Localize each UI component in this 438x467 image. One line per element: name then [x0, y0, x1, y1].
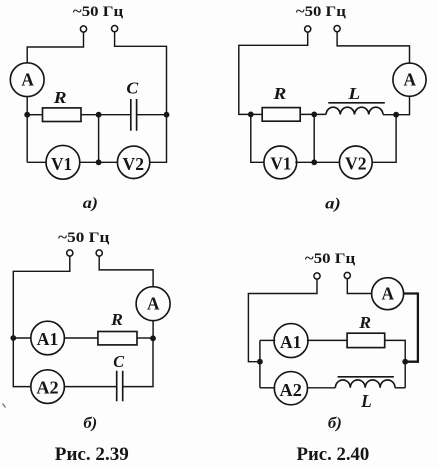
- svg-text:V1: V1: [51, 154, 72, 174]
- wire middle riser (2.39a): [98, 115, 100, 163]
- wire left terminal to ammeter A (2.39a): [27, 32, 83, 63]
- node right junction (2.40b): [402, 359, 408, 365]
- svg-text:А1: А1: [280, 332, 301, 352]
- svg-text:а): а): [325, 195, 341, 212]
- inductor L (2.40b): [335, 377, 395, 411]
- node right junction (2.40a): [393, 112, 399, 118]
- svg-text:А2: А2: [280, 380, 302, 400]
- svg-text:~50 Гц: ~50 Гц: [73, 4, 124, 20]
- svg-text:C: C: [126, 79, 139, 98]
- svg-text:Рис. 2.40: Рис. 2.40: [297, 444, 370, 465]
- wire riser to A1 (2.40b): [260, 339, 275, 341]
- svg-text:б): б): [83, 415, 97, 432]
- svg-text:R: R: [53, 88, 67, 107]
- node middle junction (2.39a): [96, 112, 102, 118]
- node left junction (2.40b): [257, 359, 263, 365]
- svg-text:А1: А1: [37, 329, 59, 349]
- wire coil to right riser (2.40b): [395, 387, 405, 389]
- wire left rail down to A2 (2.39b): [13, 338, 31, 387]
- svg-text:Рис. 2.39: Рис. 2.39: [55, 444, 129, 465]
- voltmeter V2 (2.40a): [339, 146, 372, 179]
- wire left drop to V1 (2.40a): [251, 114, 264, 162]
- wire left rail to V1 (2.39a): [27, 161, 46, 163]
- ammeter A1 (2.39b): [31, 321, 65, 355]
- wire resistor to capacitor (2.39a): [81, 114, 131, 116]
- node left junction (2.39b): [10, 335, 16, 341]
- node bottom junction (2.40a): [311, 159, 317, 165]
- wire A2 to capacitor (2.39b): [64, 386, 117, 388]
- wire right riser down to V2 (2.40a): [372, 115, 396, 163]
- node right junction (2.39b): [150, 335, 156, 341]
- wire coil to ammeter (2.40a): [383, 96, 410, 114]
- voltmeter V2 (2.39a): [117, 146, 149, 178]
- ammeter A (2.40a): [393, 63, 426, 96]
- wire V1 to V2 (2.40a): [295, 161, 340, 163]
- wire resistor to right node (2.39b): [137, 337, 153, 339]
- svg-text:R: R: [358, 313, 371, 332]
- wire left terminal to left rail (2.39b): [13, 256, 70, 338]
- ammeter A (2.39b): [136, 287, 170, 321]
- wire left riser A1-A2 (2.40b): [259, 340, 261, 387]
- svg-text:А: А: [147, 294, 160, 314]
- svg-text:V2: V2: [123, 154, 145, 174]
- ammeter A (2.40b): [372, 278, 404, 310]
- svg-text:~50 Гц: ~50 Гц: [58, 230, 110, 246]
- terminal left (2.39b): [67, 250, 73, 256]
- svg-text:C: C: [113, 352, 125, 371]
- node left junction (2.39a): [24, 112, 30, 118]
- wire left terminal to left rail (2.40b): [248, 279, 317, 362]
- wire middle riser (2.40a): [313, 114, 315, 162]
- svg-text:А2: А2: [36, 378, 58, 398]
- node left junction (2.40a): [248, 112, 254, 118]
- svg-text:V2: V2: [345, 153, 367, 173]
- wire right terminal to ammeter A (2.39b): [99, 256, 153, 287]
- voltmeter V1 (2.39a): [46, 145, 80, 179]
- ammeter A1 (2.40b): [274, 324, 308, 358]
- wire node to resistor (2.39a): [27, 114, 42, 116]
- inductor L (2.40a): [326, 84, 385, 115]
- stray print mark: [3, 404, 6, 408]
- wire left rail A to V1 row (2.39a): [26, 97, 28, 163]
- wire node to A1 (2.39b): [13, 337, 31, 339]
- terminal right (2.39b): [96, 250, 102, 256]
- svg-text:L: L: [347, 84, 360, 103]
- wire resistor to coil (2.40a): [300, 113, 326, 115]
- ammeter A (2.39a): [10, 63, 44, 97]
- wire node to resistor (2.40a): [251, 113, 262, 115]
- resistor R (2.39b): [98, 310, 137, 345]
- wire A1 to resistor (2.39b): [64, 337, 98, 339]
- terminal right (2.40a): [334, 26, 340, 32]
- capacitor C (2.39b): [113, 352, 125, 401]
- resistor R (2.40a): [262, 84, 300, 121]
- capacitor C (2.39a): [126, 79, 139, 131]
- svg-text:R: R: [110, 310, 123, 329]
- ammeter A2 (2.39b): [31, 370, 65, 404]
- node right junction (2.39a): [164, 112, 170, 118]
- wire A1 to resistor (2.40b): [307, 339, 347, 341]
- svg-text:~50 Гц: ~50 Гц: [296, 4, 347, 20]
- node bottom junction (2.39a): [96, 159, 102, 165]
- svg-text:L: L: [360, 391, 372, 411]
- wire right rail down to V2 (2.39a): [150, 115, 167, 163]
- wire resistor to right riser (2.40b): [385, 340, 406, 361]
- wire right terminal to ammeter A (2.40b): [347, 279, 371, 294]
- wire riser to A2 (2.40b): [260, 387, 275, 389]
- wire right riser down (2.40b): [404, 362, 406, 388]
- resistor R (2.40b): [347, 313, 385, 348]
- resistor R (2.39a): [43, 88, 82, 122]
- terminal left (2.39a): [80, 26, 86, 32]
- voltmeter V1 (2.40a): [264, 146, 297, 179]
- terminal right (2.39a): [112, 26, 118, 32]
- wire A2 to coil (2.40b): [307, 387, 336, 389]
- node middle junction (2.40a): [311, 112, 317, 118]
- svg-text:~50 Гц: ~50 Гц: [305, 251, 356, 267]
- ammeter A2 (2.40b): [274, 372, 307, 405]
- svg-text:А: А: [382, 284, 395, 304]
- wire left terminal to left node (2.40a): [239, 32, 308, 114]
- wire V1 to V2 (2.39a): [80, 161, 118, 163]
- svg-text:А: А: [404, 70, 417, 90]
- terminal left (2.40a): [305, 26, 311, 32]
- svg-text:б): б): [328, 415, 342, 432]
- wire ammeter A to node (2.39b): [152, 321, 154, 339]
- wire capacitor to right riser (2.39b): [123, 338, 153, 386]
- svg-text:V1: V1: [270, 153, 291, 173]
- wire capacitor to right node (2.39a): [137, 114, 167, 116]
- terminal right (2.40b): [344, 272, 350, 278]
- svg-text:а): а): [83, 195, 98, 212]
- wire right terminal to right rail (2.39a): [115, 32, 167, 115]
- svg-text:А: А: [21, 70, 34, 90]
- terminal left (2.40b): [314, 273, 320, 279]
- wire ammeter to right terminal (2.40a): [337, 32, 409, 63]
- svg-text:R: R: [272, 84, 286, 103]
- wire ammeter to right rail thick (2.40b): [404, 294, 418, 362]
